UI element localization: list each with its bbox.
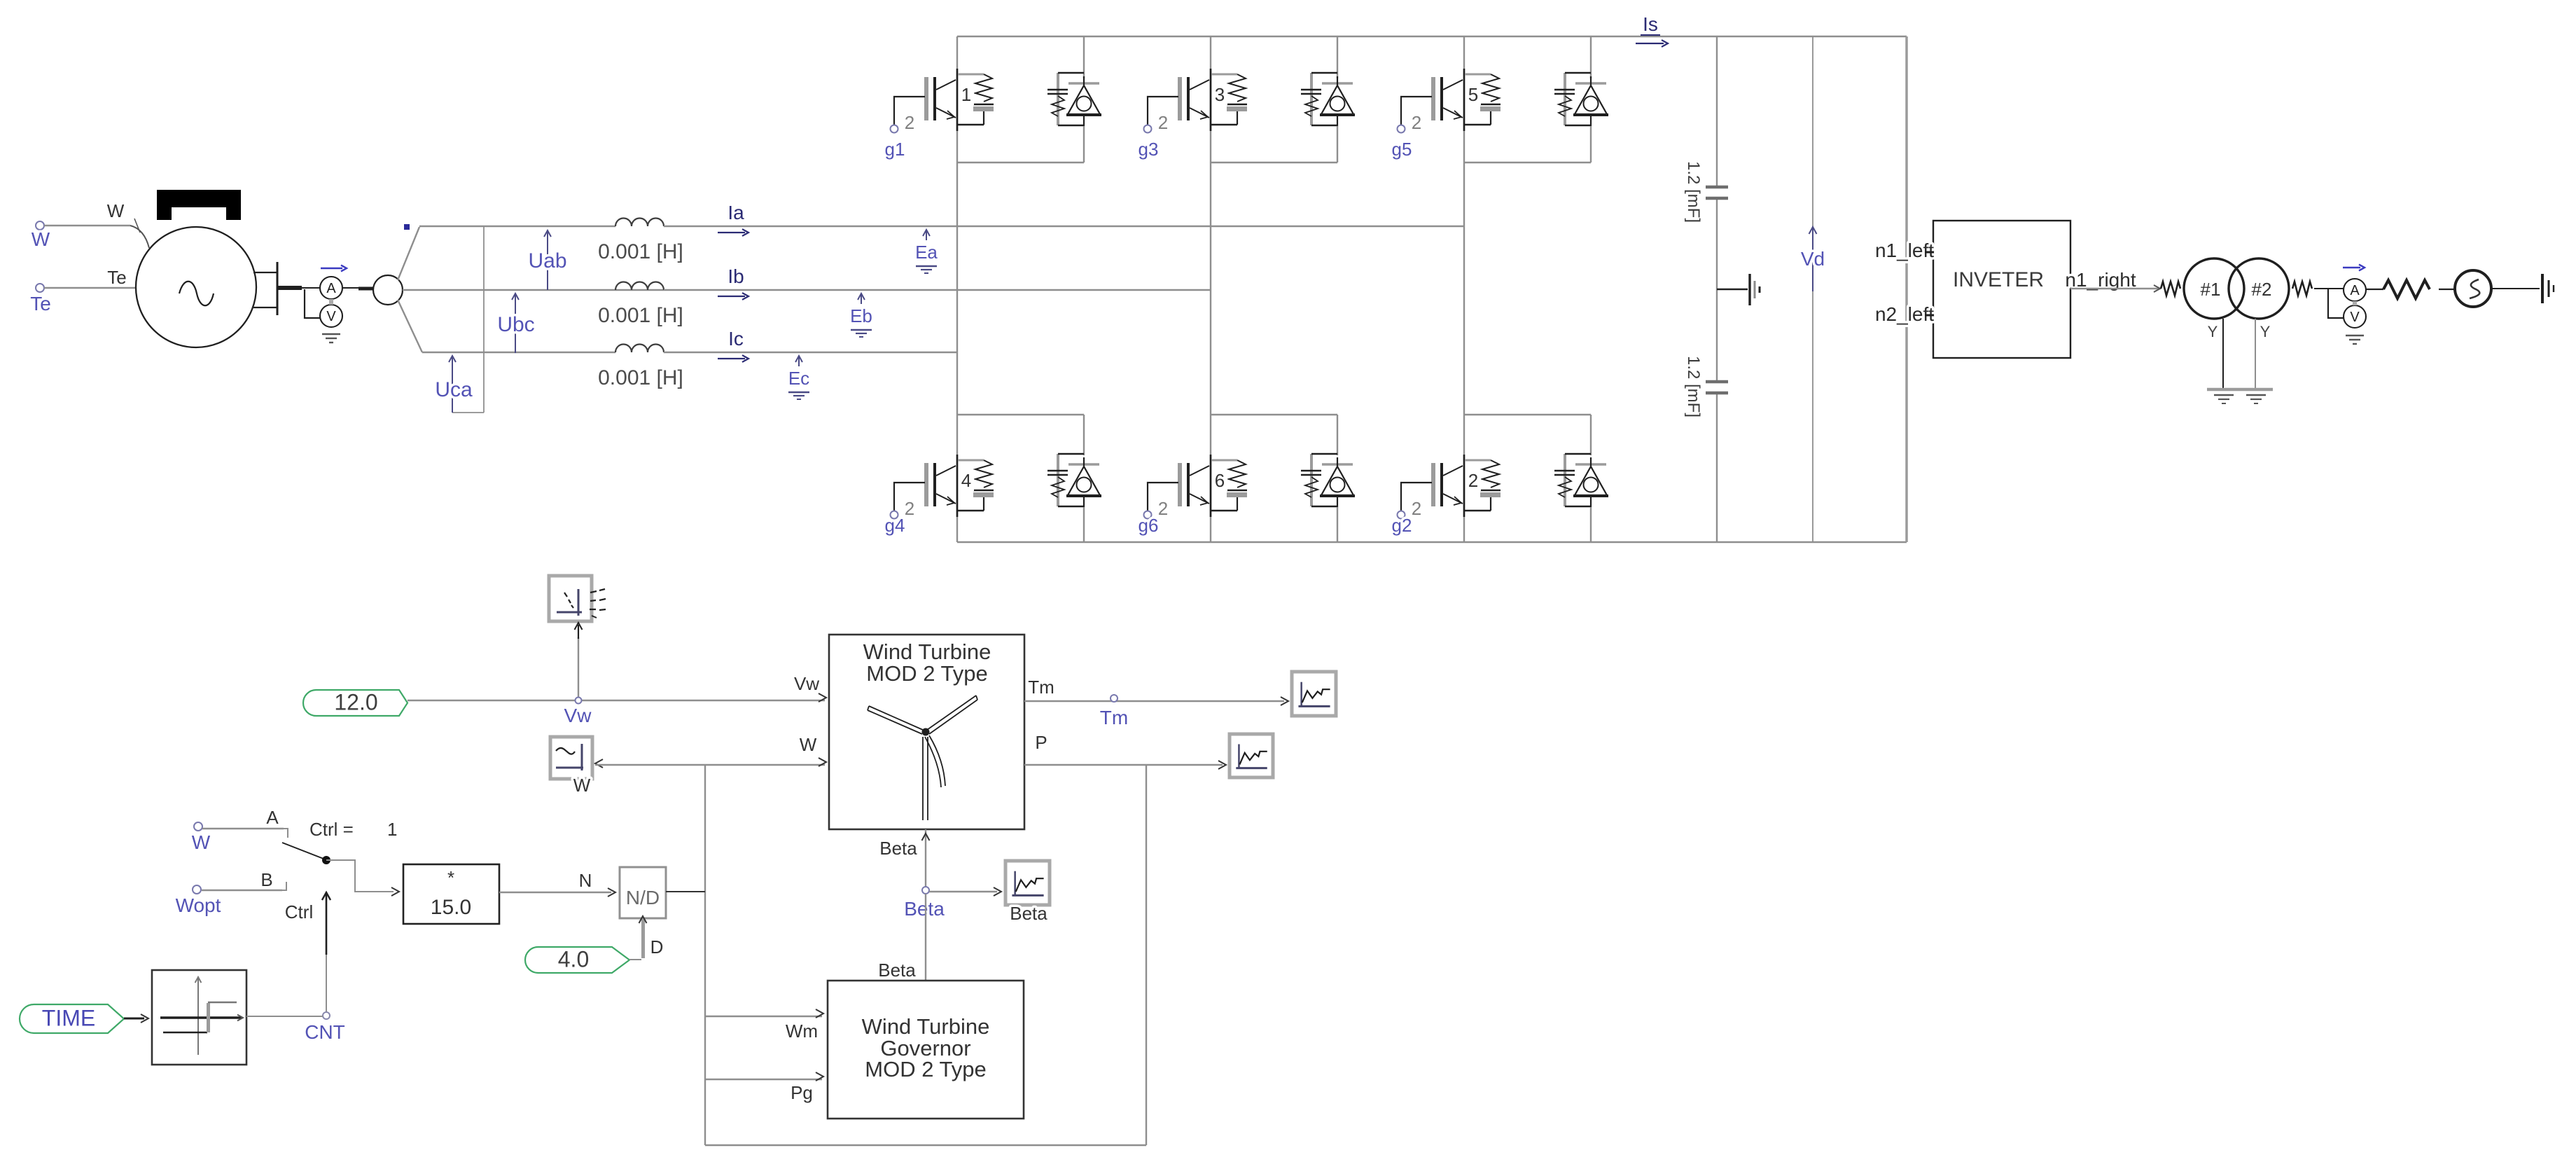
svg-text:Y: Y: [2260, 323, 2271, 340]
svg-text:2: 2: [1468, 470, 1478, 491]
svg-text:Vw: Vw: [564, 705, 592, 726]
svg-text:2: 2: [1412, 112, 1421, 133]
svg-text:1.2 [mF]: 1.2 [mF]: [1684, 161, 1703, 223]
svg-text:g3: g3: [1139, 139, 1159, 160]
svg-text:g4: g4: [885, 515, 905, 536]
svg-text:TIME: TIME: [42, 1006, 95, 1031]
svg-text:1: 1: [387, 819, 397, 840]
svg-text:B: B: [260, 869, 272, 890]
svg-text:Ctrl: Ctrl: [285, 901, 313, 922]
svg-text:Is: Is: [1643, 13, 1658, 35]
svg-text:#2: #2: [2252, 279, 2272, 300]
svg-text:Wind Turbine: Wind Turbine: [862, 1014, 990, 1039]
svg-text:MOD 2 Type: MOD 2 Type: [865, 1057, 986, 1081]
svg-text:V: V: [326, 309, 336, 324]
svg-text:3: 3: [1215, 84, 1225, 105]
svg-text:Ctrl =: Ctrl =: [309, 819, 354, 840]
svg-text:Pg: Pg: [791, 1082, 813, 1103]
svg-text:g1: g1: [885, 139, 905, 160]
svg-text:2: 2: [1412, 498, 1421, 519]
svg-text:A: A: [266, 807, 279, 828]
svg-text:A: A: [2350, 283, 2360, 298]
svg-text:Tm: Tm: [1028, 677, 1054, 698]
svg-text:15.0: 15.0: [431, 896, 471, 919]
svg-text:Beta: Beta: [879, 838, 917, 859]
svg-text:*: *: [447, 867, 454, 888]
svg-text:n1_left: n1_left: [1875, 240, 1934, 261]
svg-text:Beta: Beta: [904, 898, 945, 920]
svg-text:W: W: [800, 734, 817, 755]
svg-text:0.001 [H]: 0.001 [H]: [598, 366, 683, 389]
svg-text:Wind Turbine: Wind Turbine: [863, 639, 991, 664]
svg-text:Wm: Wm: [786, 1021, 818, 1042]
svg-text:W: W: [107, 200, 125, 221]
svg-text:INVETER: INVETER: [1953, 268, 2044, 291]
svg-text:1: 1: [961, 84, 971, 105]
svg-text:Ia: Ia: [727, 202, 744, 223]
svg-text:Ib: Ib: [727, 265, 744, 287]
svg-text:Uab: Uab: [528, 249, 566, 272]
svg-text:P: P: [1035, 732, 1047, 753]
svg-text:A: A: [326, 281, 336, 296]
svg-text:Uca: Uca: [435, 378, 473, 401]
svg-text:N: N: [579, 870, 592, 891]
svg-text:V: V: [2350, 310, 2360, 325]
svg-text:D: D: [650, 936, 664, 957]
svg-text:2: 2: [1158, 498, 1168, 519]
svg-text:4.0: 4.0: [558, 947, 589, 972]
svg-text:W: W: [573, 775, 591, 796]
svg-text:Wopt: Wopt: [176, 894, 221, 916]
svg-text:Vw: Vw: [794, 673, 819, 694]
svg-text:g5: g5: [1392, 139, 1412, 160]
svg-text:5: 5: [1468, 84, 1478, 105]
svg-text:n1_right: n1_right: [2065, 269, 2136, 291]
svg-text:Te: Te: [30, 293, 51, 314]
svg-text:2: 2: [1158, 112, 1168, 133]
svg-text:Beta: Beta: [878, 960, 916, 981]
svg-text:MOD 2 Type: MOD 2 Type: [866, 661, 987, 686]
svg-text:Beta: Beta: [1010, 903, 1047, 924]
svg-text:Eb: Eb: [850, 305, 872, 326]
svg-text:Vd: Vd: [1801, 248, 1825, 270]
svg-text:Ubc: Ubc: [497, 313, 534, 336]
svg-text:N/D: N/D: [626, 887, 660, 908]
svg-text:2: 2: [905, 498, 914, 519]
svg-text:4: 4: [961, 470, 971, 491]
svg-text:0.001 [H]: 0.001 [H]: [598, 240, 683, 263]
svg-text:12.0: 12.0: [334, 690, 377, 715]
svg-text:2: 2: [905, 112, 914, 133]
svg-text:CNT: CNT: [305, 1021, 345, 1043]
svg-text:Ic: Ic: [728, 328, 744, 350]
svg-text:#1: #1: [2201, 279, 2221, 300]
svg-text:Y: Y: [2208, 323, 2218, 340]
svg-text:Ec: Ec: [788, 368, 809, 389]
svg-text:Ea: Ea: [915, 242, 938, 263]
svg-text:1.2 [mF]: 1.2 [mF]: [1684, 356, 1703, 417]
svg-text:W: W: [192, 831, 211, 853]
svg-text:W: W: [32, 228, 50, 250]
svg-text:6: 6: [1215, 470, 1225, 491]
svg-text:Te: Te: [107, 267, 126, 288]
svg-text:Tm: Tm: [1100, 707, 1128, 728]
svg-text:g6: g6: [1139, 515, 1159, 536]
svg-text:0.001 [H]: 0.001 [H]: [598, 304, 683, 327]
svg-text:g2: g2: [1392, 515, 1412, 536]
